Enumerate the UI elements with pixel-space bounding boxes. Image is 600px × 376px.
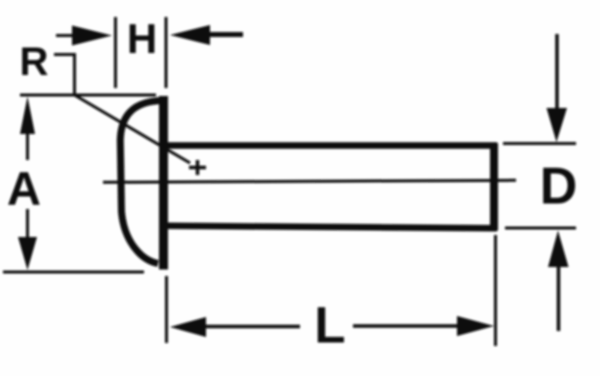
shank end edge <box>490 143 498 231</box>
dimension D up arrow <box>557 266 561 331</box>
center line <box>103 180 516 182</box>
dimension H right arrow <box>170 25 210 45</box>
dimension H left arrow <box>56 34 74 37</box>
svg-text:L: L <box>314 297 345 354</box>
extension line top of head (A top) <box>20 94 156 97</box>
extension line L left <box>165 276 168 343</box>
extension line bottom of head (A bottom) <box>3 271 144 274</box>
rivet head right face <box>159 96 168 270</box>
dimension A down arrow <box>26 209 29 239</box>
dimension L left arrow <box>170 317 206 337</box>
svg-text:H: H <box>127 15 157 62</box>
extension line H right <box>165 17 168 88</box>
rivet head dome outline <box>120 101 163 264</box>
svg-text:D: D <box>540 158 578 216</box>
leader line R bend <box>54 55 75 96</box>
dimension D down arrow <box>555 34 559 109</box>
svg-text:A: A <box>7 162 41 215</box>
leader line R diagonal <box>75 95 191 163</box>
svg-text:R: R <box>20 40 49 84</box>
extension line H left <box>114 17 117 88</box>
dimension L right arrow <box>353 324 458 328</box>
shank bottom edge <box>165 226 497 228</box>
dimension A up arrow <box>20 97 35 135</box>
extension line D bottom <box>505 227 576 230</box>
radius center mark plus <box>189 166 206 170</box>
extension line D top <box>503 142 576 145</box>
shank top edge <box>165 142 497 149</box>
extension line L right <box>494 235 497 346</box>
